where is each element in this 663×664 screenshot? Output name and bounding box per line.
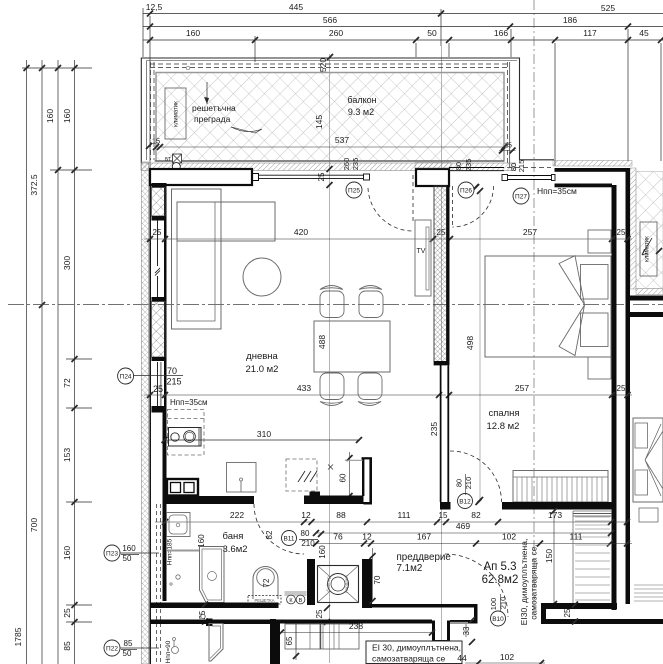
wall entry lower right [450,620,478,624]
dim 60 vertical [349,452,351,500]
balcony slab hatched band [141,163,516,171]
dimension line left L2 (372.5/700) [41,60,43,664]
svg-text:310: 310 [257,429,271,439]
axis centerline horizontal [8,304,663,306]
svg-text:БТ: БТ [165,157,171,163]
svg-text:215: 215 [517,160,526,173]
svg-text:88: 88 [336,510,346,520]
wall bedroom bottom [502,502,612,510]
right balcony crosshatch [636,172,663,289]
svg-text:372.5: 372.5 [29,174,39,196]
fridge dashed [286,459,317,491]
chair bottom-left [320,373,344,400]
svg-text:50: 50 [123,554,132,563]
wardrobe [513,471,608,503]
svg-text:85: 85 [62,641,72,651]
svg-text:498: 498 [465,336,475,350]
svg-text:150: 150 [544,549,554,563]
dim line y522 bath-hall [155,521,627,523]
svg-text:44: 44 [457,653,467,663]
wall corridor left vertical [270,619,276,664]
svg-text:469: 469 [456,521,470,531]
svg-text:62.8м2: 62.8м2 [482,574,519,586]
balcony floor crosshatch [156,73,504,162]
svg-text:пералня: пералня [344,575,349,593]
extension lines top [142,8,144,57]
svg-text:260: 260 [329,28,343,38]
sofa outer [172,189,222,329]
nightstand bottom [588,357,611,379]
window P26 glazing [449,167,504,169]
svg-text:70: 70 [167,366,177,376]
svg-text:445: 445 [289,2,303,12]
svg-text:12,5: 12,5 [146,2,163,12]
svg-text:166: 166 [494,28,508,38]
wall room2 right [274,623,281,664]
svg-text:7.1м2: 7.1м2 [397,563,423,574]
wall bedroom right [612,185,617,610]
svg-text:76: 76 [333,532,343,542]
BT symbol [173,154,182,163]
door label B11 [282,531,297,546]
left wall inner face line [164,183,167,413]
wall entry lower left [385,620,432,624]
svg-text:В10: В10 [492,616,504,623]
svg-text:Нпп=90: Нпп=90 [165,640,172,663]
wall far right vertical [626,168,631,604]
svg-text:3.6м2: 3.6м2 [222,544,247,555]
left wall cap 2 [152,216,166,221]
glass line marker circle [186,66,190,70]
svg-text:15: 15 [152,137,160,146]
svg-text:П24: П24 [120,373,132,380]
chair bottom-right [358,373,382,400]
svg-text:102: 102 [500,652,514,662]
svg-text:160: 160 [122,544,136,553]
axis vertical x441 [441,46,443,663]
washing machine [318,566,359,603]
svg-text:257: 257 [515,383,529,393]
dimension line left L3 (160) [57,60,59,664]
svg-text:33: 33 [462,626,471,635]
svg-text:дневна: дневна [246,351,278,362]
svg-text:9.3 м2: 9.3 м2 [348,107,374,117]
kitchen island [227,463,257,493]
partition bottom cap [440,502,451,510]
dim line y395 living [144,394,446,396]
nightstand top [588,230,611,253]
entry threshold marks [450,622,468,624]
left wall cap 5 [152,406,166,413]
svg-text:238: 238 [349,621,363,631]
svg-text:П27: П27 [515,193,527,200]
wall bedroom top inner [555,184,613,188]
svg-text:25: 25 [315,609,324,618]
svg-text:520: 520 [318,58,328,72]
left wall cap 3 [152,297,166,302]
window label P25 [346,182,362,198]
wall entry top [370,604,478,608]
svg-text:65: 65 [285,636,294,645]
svg-text:45: 45 [639,28,649,38]
svg-text:Нпп=185: Нпп=185 [167,538,174,565]
wall bathroom bottom [151,603,279,609]
wall entry right cap [474,604,478,624]
svg-text:Нпп=35см: Нпп=35см [537,186,577,196]
bed pillow bottom [581,313,609,347]
axis vertical x534 [533,0,535,617]
dimension line top B (566/186) [143,26,663,28]
window P23 label [104,545,120,561]
svg-text:В12: В12 [459,498,471,505]
svg-text:В11: В11 [283,535,294,542]
left wall inner black band [163,413,167,602]
bath glass partition [167,550,199,552]
left wall column hatch 2 [152,302,166,358]
window label P26 [458,182,474,198]
vent hatch symbol [298,471,317,482]
svg-text:балкон: балкон [347,95,376,105]
svg-text:25: 25 [317,172,326,181]
wall kitchen nook [362,458,364,497]
dim 238 [281,632,432,634]
entry recess [432,621,435,643]
bath door B11 swing [254,504,304,554]
svg-text:72: 72 [262,578,271,587]
x marker [328,465,333,470]
room2 fixtures [173,641,175,647]
svg-text:235: 235 [429,422,439,436]
window P27 glazing [507,175,552,177]
dining table [314,321,390,372]
wall connector square [252,174,259,181]
svg-text:12: 12 [301,510,311,520]
hatch band above T-head [415,163,451,169]
svg-text:12: 12 [362,532,372,542]
neighbor nightstand [639,508,658,522]
svg-text:85: 85 [124,639,133,648]
balcony step right [499,150,516,152]
wall niche left [307,559,315,605]
balcony dim 537 [156,146,504,148]
svg-text:222: 222 [230,510,244,520]
svg-text:210: 210 [301,539,315,548]
svg-text:257: 257 [523,227,537,237]
door B10 swing [445,554,508,617]
svg-text:климатик: климатик [174,101,180,127]
wall T-head living/bedroom [416,169,449,186]
floor grille [248,596,281,605]
svg-text:420: 420 [294,227,308,237]
svg-text:72: 72 [62,378,72,388]
bed blanket fold top [559,256,585,305]
svg-text:спалня: спалня [488,408,519,419]
sofa chaise [177,202,275,241]
svg-text:П22: П22 [106,645,118,652]
neighbor bed [633,418,663,502]
wall right lower left cap [541,603,546,624]
svg-text:TV: TV [417,248,426,255]
svg-text:537: 537 [335,135,349,145]
round table [243,258,281,296]
bath wall outlets [176,575,180,579]
hatch band right balcony vertical [630,168,636,289]
bath sink [167,513,191,537]
svg-text:70: 70 [373,575,382,584]
door label B12 [458,494,473,509]
closet with doors [285,624,359,649]
svg-text:566: 566 [323,15,337,25]
door P26 leaf and swing [452,186,454,225]
svg-text:173: 173 [548,510,562,520]
wall bottom right long [541,619,663,624]
svg-text:25: 25 [153,384,163,394]
svg-text:ЕІ 30, димоуплътнена,: ЕІ 30, димоуплътнена, [372,643,461,653]
dimension line top A (445/525) [143,13,663,15]
wall kitchen-bath right [304,496,364,505]
partition wall hatch [434,186,447,365]
window label P27 [513,188,529,204]
svg-text:700: 700 [29,518,39,532]
svg-text:153: 153 [62,448,72,462]
svg-text:25: 25 [62,608,72,618]
dim line y440 kitchen 310 [165,439,361,441]
K V circles [285,591,307,596]
svg-text:15: 15 [439,511,448,520]
svg-text:160: 160 [62,546,72,560]
dim line y239 living+bedroom [144,238,632,240]
svg-text:П26: П26 [460,187,472,194]
wall kitchen-bath left [165,496,254,504]
wall right lower horizontal [541,603,617,609]
svg-text:145: 145 [314,115,324,129]
kitchen counter dashed [168,410,205,456]
svg-text:преграда: преграда [194,114,231,124]
door B12 swing [450,451,502,502]
room2 shower [209,624,223,662]
svg-text:102: 102 [502,532,516,542]
balcony railing inner line [147,60,518,62]
air conditioner unit on balcony [165,88,186,139]
hatch band right balcony bottom [636,289,663,295]
svg-text:25: 25 [617,384,626,393]
left wall hatched band [142,162,149,664]
svg-text:111: 111 [398,510,411,520]
partition wall black edge [447,186,450,365]
dimension line left L4 (160/300/72/153/160/25/85) [74,60,76,664]
shower [200,547,225,603]
door hinge block [206,619,213,627]
bed [485,256,611,357]
balcony glass dashed lines [150,63,510,65]
hatch band top right [553,161,632,167]
svg-text:Ап 5.3: Ап 5.3 [483,561,516,573]
svg-text:25: 25 [563,608,572,617]
svg-text:160: 160 [45,109,55,123]
svg-text:160: 160 [62,109,72,123]
svg-text:80: 80 [301,529,310,538]
svg-text:488: 488 [317,335,327,349]
axis vertical x329 [329,54,331,663]
svg-text:160: 160 [197,534,206,548]
wall far right step lower [630,312,663,317]
bed pillow top [581,265,609,300]
window P23 glazing dashed [156,504,158,662]
svg-text:50: 50 [123,649,132,658]
svg-text:1785: 1785 [13,627,23,646]
partition lower wall [440,365,442,502]
left wall column hatch 1 [152,188,166,217]
svg-text:15: 15 [504,143,512,150]
wall niche right [362,559,372,608]
window P25 glazing [258,174,366,176]
balcony railing outline [141,58,554,163]
door label B10 [491,611,506,626]
svg-text:50: 50 [427,28,437,38]
dim line y543 [316,543,632,545]
svg-text:167: 167 [417,532,431,542]
axis vertical x480 (498 dim) [479,190,481,500]
dim line y395 bedroom [449,394,632,396]
kitchen sink unit [167,479,198,496]
kitchen stove [169,428,202,447]
svg-text:160: 160 [186,28,200,38]
door P25 leaf and swing [412,175,414,223]
dimension line left L1 (1785) [26,60,28,664]
bed blanket fold bottom [559,305,585,356]
sofa inner [177,202,215,321]
left wall cap 1 [152,183,166,188]
svg-text:П25: П25 [348,187,360,194]
svg-text:РЕШЕТКА: РЕШЕТКА [254,598,274,603]
chair top-left [320,291,344,318]
svg-text:П23: П23 [106,550,118,557]
svg-text:баня: баня [223,531,244,542]
wall bedroom top outer [555,168,631,172]
wall room2 top [151,620,274,625]
svg-text:433: 433 [297,383,311,393]
svg-text:ЕІ30, димоуплътнена,: ЕІ30, димоуплътнена, [519,539,529,626]
fire label box [366,641,462,664]
svg-text:самозатваряща се: самозатваряща се [372,654,445,664]
svg-text:Нпп=35см: Нпп=35см [170,398,208,407]
svg-text:бойлер: бойлер [325,576,331,592]
svg-text:235: 235 [351,158,360,171]
wall corridor top [276,620,432,624]
wall notch shaft [310,492,321,505]
svg-text:25: 25 [617,228,626,237]
left wall cap 4 [152,357,166,361]
wall far right step upper [630,296,663,301]
dim 70 niche [372,548,374,601]
svg-text:82: 82 [471,510,481,520]
dim 150 vertical [553,511,555,604]
svg-text:82: 82 [265,530,274,539]
svg-text:100: 100 [489,598,498,611]
svg-text:300: 300 [62,256,72,270]
door knob circle [201,614,205,618]
dim line y533 469 [316,532,611,534]
svg-text:210: 210 [499,597,508,610]
neighbor closet shelves [634,584,663,586]
svg-text:186: 186 [563,15,577,25]
svg-text:525: 525 [601,3,615,13]
dimension line top C (160/260/50/166/117/45) [143,39,663,41]
toilet [253,567,278,600]
window P22 label [104,640,120,656]
svg-text:решетъчна: решетъчна [192,103,236,113]
dim 65 [295,623,297,660]
svg-text:В: В [299,598,303,604]
svg-text:80: 80 [454,162,463,170]
partition cap mid [434,361,450,365]
left wall inner frame line [149,168,151,664]
wall living top (parapet) [150,169,252,185]
window P24 glazing [157,362,159,406]
left dim row stubs and ticks [22,67,92,69]
svg-text:117: 117 [583,28,597,38]
balcony inner bottom edge [155,160,505,162]
svg-text:21.0 м2: 21.0 м2 [246,364,279,375]
svg-text:преддверие: преддверие [397,552,452,563]
TV cabinet [415,220,431,296]
svg-text:25: 25 [153,228,162,237]
linen closet shelves [572,511,574,603]
svg-text:260: 260 [342,158,351,171]
window P24 label [118,368,134,384]
svg-text:12.8 м2: 12.8 м2 [487,421,520,432]
svg-text:235: 235 [464,159,473,172]
svg-text:215: 215 [166,377,181,387]
svg-text:самозатваряща се.: самозатваряща се. [529,544,539,620]
svg-text:60: 60 [339,473,348,482]
chair top-right [359,291,383,318]
svg-text:160: 160 [318,545,327,559]
left wall window glazing (living) [157,221,159,267]
air conditioner unit right balcony [640,222,657,276]
svg-text:80: 80 [455,479,464,487]
